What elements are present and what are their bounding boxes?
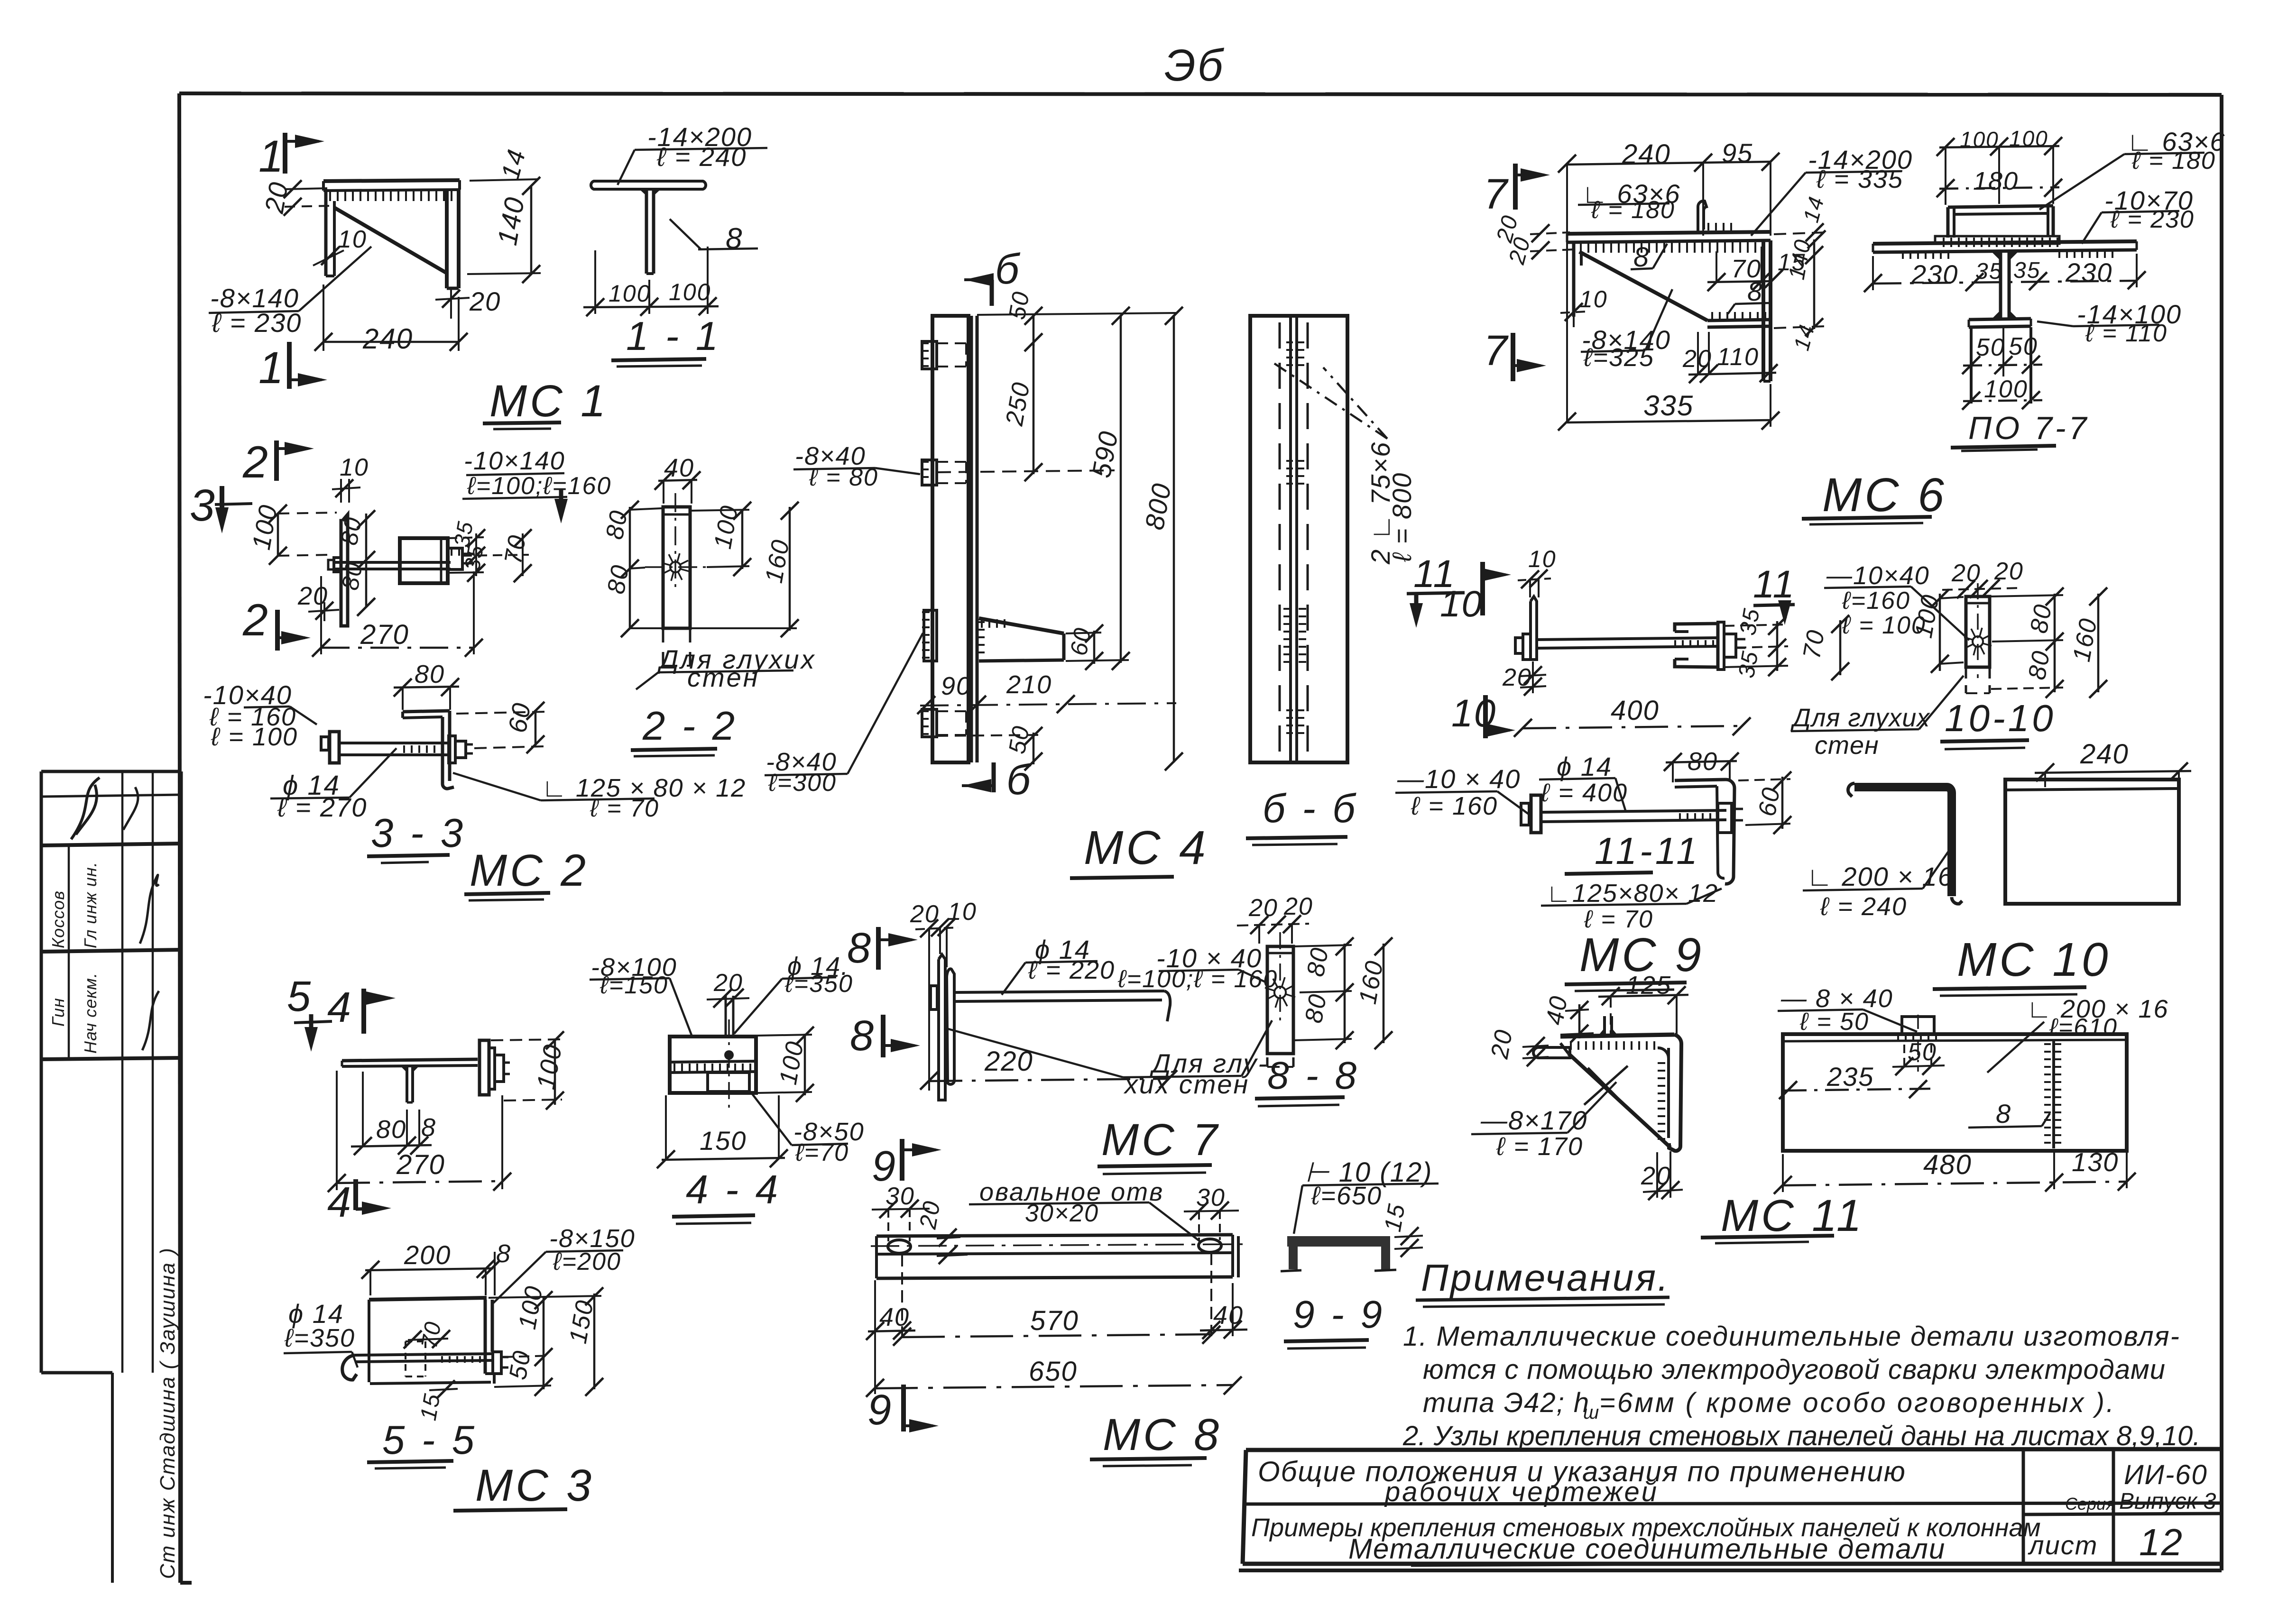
svg-text:270: 270 (360, 619, 409, 650)
label Для глухих стен 2-2 (636, 644, 816, 692)
MC6 weld under plate (1572, 242, 1763, 253)
svg-text:50: 50 (1004, 289, 1035, 321)
dim 15 5-5 (416, 1380, 458, 1422)
border frame right line (2220, 95, 2223, 1570)
dim 20 MC11 left (1486, 1027, 1549, 1066)
1-1 plate (591, 181, 706, 189)
dim 160 8-8 (1354, 937, 1393, 1049)
section marker 8 bottom (850, 1012, 920, 1060)
svg-text:ℓ=610: ℓ=610 (2049, 1014, 2118, 1041)
title 10-10 (1940, 697, 2056, 749)
label L63x6 l=180 MC6 (1578, 179, 1681, 224)
MC8 plate (871, 1235, 1245, 1278)
4-4 bolt section dot (724, 1019, 734, 1110)
svg-text:10: 10 (1440, 583, 1483, 624)
MC4 bolt 1 (922, 341, 966, 369)
label 8 MC6 right (1728, 276, 1769, 314)
svg-text:2: 2 (242, 437, 269, 487)
svg-text:4 - 4: 4 - 4 (686, 1167, 781, 1212)
11-11 bolt (1521, 795, 1743, 833)
2-2 dashed continuation (663, 628, 690, 666)
3-3 bolt shaft (339, 743, 449, 755)
svg-text:ℓ = 160: ℓ = 160 (1411, 792, 1498, 820)
title block outer box (1243, 1449, 2222, 1564)
dim 10 MC2 plate (332, 454, 369, 503)
MC6 angle end on plate (1698, 201, 1736, 233)
svg-text:8: 8 (850, 1012, 875, 1060)
dims 80 8 MC3 (351, 1072, 436, 1155)
svg-text:35: 35 (1735, 606, 1765, 637)
title ПО7-7 (1951, 410, 2089, 451)
title block text row1 line2 (1384, 1477, 1659, 1507)
MC11 block on angle (1897, 1017, 1940, 1037)
dim 60 11-11 (1738, 771, 1791, 834)
MC7 bolt rod with hook (954, 991, 1170, 1021)
label -8x40 l=300 (765, 633, 923, 797)
dim 20 MC8 left (914, 1198, 968, 1264)
5-5 edge plate (485, 1300, 494, 1384)
label -8x50 l=70 (750, 1092, 865, 1166)
dim 100 10-10 (1910, 589, 1964, 673)
dim 50 MC4 bottom (937, 723, 1042, 771)
svg-text:ϕ 14: ϕ 14 (1557, 752, 1612, 781)
svg-text:20: 20 (1641, 1162, 1671, 1190)
svg-text:Выпуск 3: Выпуск 3 (2119, 1489, 2216, 1514)
MC4 left plate column (932, 316, 968, 762)
MC1 diagonal plate edge (334, 208, 447, 273)
MC4 bolt 4 (922, 709, 966, 737)
svg-text:ℓ = 240: ℓ = 240 (1820, 892, 1907, 921)
dim 10 MC9 plate (1518, 546, 1557, 597)
svg-text:20: 20 (1951, 560, 1981, 587)
svg-text:б - б: б - б (1263, 786, 1358, 831)
2-2 centerlines (645, 493, 707, 588)
svg-text:ℓ = 180: ℓ = 180 (2131, 147, 2216, 174)
MC4 tapered gusset (979, 618, 1064, 661)
dim 100 4-4 right (758, 1027, 814, 1102)
dims 100 100 ПО7-7 (1937, 126, 2062, 205)
5-5 bolt rod and J-hook (342, 1354, 493, 1380)
svg-text:480: 480 (1923, 1149, 1972, 1180)
MC1 right vertical plate (447, 190, 459, 288)
svg-text:650: 650 (1029, 1356, 1078, 1387)
svg-text:80: 80 (376, 1115, 406, 1144)
dim 8 5-5 (482, 1239, 511, 1295)
svg-text:70: 70 (417, 1319, 446, 1350)
label 2L75x6 l=800 (1271, 361, 1417, 569)
svg-text:Примечания.: Примечания. (1421, 1257, 1670, 1299)
6-6 outer panel (1250, 316, 1347, 762)
svg-text:Эб: Эб (1164, 40, 1225, 91)
svg-text:2 - 2: 2 - 2 (642, 704, 738, 749)
ПО7-7 bottom plate (1969, 319, 2031, 327)
MC10 angle view right (2005, 780, 2179, 904)
1-1 web plate (646, 190, 654, 274)
MC11 weld seam vertical (2048, 1041, 2058, 1148)
ПО7-7 channel part (1948, 206, 2053, 238)
svg-text:60: 60 (1753, 785, 1786, 818)
label -8x140 l=230 for MC1 diagonal (209, 247, 371, 338)
section marker 10 bottom (1451, 692, 1515, 738)
svg-text:ℓ=150: ℓ=150 (600, 972, 668, 999)
MC2 bolt shaft (334, 562, 451, 569)
dim 150 5-5 (489, 1287, 603, 1396)
title 8-8 (1255, 1054, 1359, 1106)
label -14x200 l=240 (618, 122, 767, 185)
svg-text:Коссов: Коссов (48, 890, 68, 948)
title 2-2 (631, 704, 738, 756)
MC6 right vertical plate (1763, 240, 1771, 381)
title MC 1 (483, 376, 609, 429)
svg-text:ИИ-60: ИИ-60 (2124, 1459, 2208, 1490)
title MC 11 (1701, 1191, 1864, 1243)
svg-text:15: 15 (1379, 1201, 1411, 1233)
label L200x16 l=610 (1987, 995, 2169, 1073)
svg-text:3: 3 (190, 480, 216, 531)
MC2 right block (400, 538, 448, 583)
MC9 anchor plate (1531, 596, 1537, 660)
section marker 11 right (1753, 563, 1795, 625)
svg-text:ℓ=350: ℓ=350 (784, 970, 853, 998)
section marker 1 top (258, 131, 324, 182)
title MC 9 (1565, 928, 1704, 991)
svg-text:50: 50 (2009, 333, 2038, 360)
svg-text:8 - 8: 8 - 8 (1267, 1054, 1359, 1097)
svg-text:570: 570 (1030, 1305, 1079, 1336)
svg-text:270: 270 (396, 1149, 445, 1180)
notes line 2 (1423, 1354, 2166, 1385)
dim 100 MC2 left (247, 502, 337, 565)
dim 50 MC4 top (1004, 289, 1042, 351)
5-5 washer T right (493, 1352, 508, 1374)
section marker 2 bottom (242, 595, 311, 651)
svg-text:4: 4 (327, 984, 352, 1031)
label L125x80x12 l=70 (453, 773, 746, 822)
title 1-1 (611, 314, 721, 367)
label -10x70 l=230 (2082, 185, 2195, 244)
section marker 1 bottom (258, 342, 327, 393)
label ф14 l=350 for 5-5 (284, 1299, 358, 1367)
stamp table outer box (41, 771, 181, 1583)
svg-text:Для глухих: Для глухих (1790, 704, 1930, 732)
notes line 3 (1423, 1387, 2116, 1423)
6-6 inner plate lines (1291, 316, 1297, 762)
6-6 dashed angle lines (1280, 322, 1308, 756)
svg-text:50: 50 (1908, 1038, 1937, 1066)
dim 270 MC3 (328, 1071, 511, 1192)
3-3 bolt head and washer (321, 732, 339, 763)
svg-text:10-10: 10-10 (1945, 697, 2056, 739)
MC9 bolt head washer (1515, 634, 1531, 660)
title MC 4 (1070, 821, 1208, 878)
svg-text:ℓ = 800: ℓ = 800 (1387, 472, 1417, 562)
svg-text:МС 7: МС 7 (1101, 1115, 1220, 1165)
MC7 anchor plate (939, 954, 954, 1100)
MC6 left vertical plate (1574, 242, 1581, 317)
dim 70 MC2 right (499, 529, 532, 582)
svg-text:80: 80 (1300, 991, 1332, 1025)
dim 70 MC9 (1798, 615, 1849, 680)
dim 60 MC4 gusset (1065, 624, 1103, 670)
svg-text:11-11: 11-11 (1595, 830, 1700, 872)
4-4 block (670, 1037, 756, 1093)
svg-text:1 - 1: 1 - 1 (626, 314, 721, 359)
svg-text:100: 100 (1984, 376, 2028, 403)
section marker 5 top (287, 973, 332, 1052)
svg-text:240: 240 (2080, 739, 2129, 770)
notes line 1 (1403, 1321, 2180, 1352)
dim 180 ПО7-7 (1937, 167, 2062, 197)
dim 60 3-3 (456, 700, 545, 753)
dim 80 80 MC2 (336, 510, 375, 616)
svg-text:ℓ=100;ℓ=160: ℓ=100;ℓ=160 (467, 472, 611, 500)
label овальное отв 30x20 (969, 1178, 1200, 1241)
svg-text:210: 210 (1006, 670, 1052, 699)
ПО7-7 web (1992, 252, 2018, 319)
svg-text:МС 1: МС 1 (489, 376, 609, 426)
label -10x40 l=160 l=100 for 3-3 (203, 680, 317, 751)
label ф14 l=220 (1002, 935, 1115, 995)
svg-text:20: 20 (914, 1198, 946, 1231)
svg-text:11: 11 (1753, 563, 1795, 606)
dim 15 9-9 (1379, 1201, 1423, 1257)
dims 90 210 MC4 (917, 670, 1176, 714)
stamp text Гин (48, 998, 68, 1027)
MC3 washer plates right (480, 1040, 495, 1095)
section marker 9 top (872, 1139, 941, 1190)
dim 80 11-11 (1664, 747, 1739, 782)
svg-text:10: 10 (1579, 286, 1608, 312)
title block text ИИ-60 (2124, 1459, 2208, 1490)
1-1 dims 100 100 (583, 247, 719, 316)
dim 80 3-3 (394, 660, 459, 710)
notes heading (1416, 1257, 1670, 1307)
svg-text:40: 40 (664, 454, 694, 482)
svg-text:ℓ = 240: ℓ = 240 (656, 142, 747, 172)
dim 70 5-5 (404, 1319, 450, 1350)
dims 80 80 8-8 (1293, 937, 1354, 1049)
svg-text:70: 70 (499, 532, 532, 566)
svg-text:30: 30 (1196, 1184, 1226, 1211)
section marker 7 top (1484, 164, 1550, 218)
dim 335 MC6 (1558, 384, 1780, 431)
svg-text:ℓ=160: ℓ=160 (1842, 587, 1910, 615)
MC1 top plate (323, 180, 460, 191)
svg-text:5: 5 (287, 973, 312, 1020)
dim 30 MC8 left (872, 1183, 930, 1241)
dim 20 MC1 bottom right (435, 286, 501, 319)
svg-text:35: 35 (1975, 259, 2002, 284)
svg-text:типа Э42; h: типа Э42; h (1423, 1387, 1590, 1418)
label L125x80x12 l=70 11-11 (1541, 879, 1722, 933)
svg-text:Гл инж ин.: Гл инж ин. (81, 862, 100, 948)
dim 20 4-4 (707, 969, 749, 1008)
svg-text:3 - 3: 3 - 3 (371, 811, 466, 856)
dim 100 ПО7-7 bottom (1962, 376, 2042, 410)
svg-text:240: 240 (362, 323, 413, 355)
svg-text:—10 × 40: —10 × 40 (1397, 764, 1521, 794)
label -8x140 l=325 MC6 (1581, 289, 1672, 372)
svg-text:235: 235 (1826, 1062, 1874, 1092)
MC11 small plate left (1533, 1047, 1570, 1058)
dim 15 MC6 (1765, 249, 1806, 288)
label C10(12) l=650 (1294, 1157, 1439, 1234)
10-10 hole (1964, 583, 1992, 678)
svg-text:80: 80 (1302, 945, 1334, 979)
MC2 left washer and head (328, 558, 341, 572)
svg-text:110: 110 (1717, 343, 1759, 371)
dim 220 MC7 (920, 1046, 1177, 1090)
label -10x40 l=160 l=100 10-10 (1824, 561, 1969, 640)
title 11-11 (1565, 830, 1700, 874)
svg-text:20: 20 (1248, 894, 1278, 922)
section marker 8 top (847, 925, 918, 972)
svg-text:ℓ = 335: ℓ = 335 (1816, 165, 1903, 193)
dim 14 MC1 plate thickness (470, 146, 540, 195)
svg-text:МС 4: МС 4 (1084, 821, 1208, 874)
MC2 nut and thread end (448, 548, 474, 569)
border frame top line (179, 93, 2222, 95)
svg-text:80: 80 (336, 514, 367, 547)
dims 20 10 MC7 (910, 898, 977, 1091)
10-10 plate (1966, 596, 1990, 693)
title block text Выпуск 3 (2119, 1489, 2216, 1514)
svg-text:∟125×80× 12: ∟125×80× 12 (1546, 879, 1718, 908)
title MC 6 (1802, 468, 1947, 524)
dims 35 35 MC2 right (448, 519, 529, 582)
section marker 9 bottom (867, 1385, 939, 1434)
section marker б top (964, 246, 1021, 306)
label -8x40 l=80 (793, 442, 920, 491)
section marker 2 top (242, 437, 314, 487)
MC9 channel block right (1675, 624, 1718, 667)
svg-text:ℓ=325: ℓ=325 (1583, 343, 1654, 372)
dims 100 50 5-5 (494, 1284, 553, 1396)
dim 160 10-10 (2068, 587, 2107, 698)
section marker 7 bottom (1484, 327, 1546, 381)
svg-text:1: 1 (258, 343, 285, 393)
svg-text:70: 70 (1798, 627, 1830, 661)
border frame left line (179, 93, 192, 1583)
MC11 diagonal (1560, 1043, 1670, 1147)
dim 20 MC2 below plate (297, 582, 339, 621)
label ф14 l=350 for 4-4 (734, 952, 853, 1034)
label 8 weld MC11 (1968, 1099, 2050, 1129)
label -10x40 l=100 l=160 MC7 (1117, 943, 1278, 993)
svg-text:230: 230 (1911, 259, 1958, 289)
marker 3 right arrow (554, 488, 568, 523)
dims 20 110 MC6 bottom (1682, 332, 1778, 383)
label ф14 l=400 (1539, 752, 1628, 812)
dim 20 MC11 bottom (1641, 1151, 1683, 1200)
label 8 MC6 mid (1631, 242, 1667, 273)
svg-text:10: 10 (340, 454, 369, 481)
label -14x100 l=110 (2037, 299, 2182, 347)
svg-text:рабочих чертежей: рабочих чертежей (1384, 1477, 1659, 1507)
svg-text:335: 335 (1643, 390, 1694, 422)
svg-text:35: 35 (1734, 649, 1763, 680)
svg-text:1. Металлические соединительн: 1. Металлические соединительные детали и… (1403, 1321, 2180, 1352)
svg-text:7: 7 (1484, 327, 1509, 375)
svg-text:50: 50 (504, 1348, 536, 1382)
MC11 bracket (1560, 1035, 1681, 1151)
dims 240 95 MC6 top (1558, 138, 1780, 422)
dims 100 160 2-2 right (690, 502, 799, 637)
dim 20 MC9 (1502, 661, 1546, 696)
dim 20 left of MC1 (259, 179, 332, 216)
svg-text:9 - 9: 9 - 9 (1293, 1293, 1385, 1336)
stamp text Коссов (48, 890, 68, 948)
MC3 top plate (342, 1059, 478, 1066)
svg-text:400: 400 (1611, 695, 1660, 726)
dim 70 MC6 (1707, 247, 1771, 291)
MC1 weld under top plate (329, 191, 454, 201)
title MC 2 (464, 845, 589, 900)
svg-text:20: 20 (1486, 1027, 1518, 1061)
sheet number mark (1164, 40, 1225, 91)
stamp signature squiggles (140, 875, 159, 1050)
5-5 dashed head box (406, 1341, 425, 1376)
svg-text:Серия: Серия (2065, 1494, 2115, 1514)
label 8 web thickness (670, 219, 758, 255)
svg-text:80: 80 (2025, 602, 2057, 635)
title MC 10 (1933, 933, 2111, 996)
label L63x6 l=180 ПО7-7 (2039, 127, 2226, 210)
svg-text:40: 40 (1213, 1301, 1244, 1330)
label -8x150 l=200 (491, 1224, 636, 1305)
label -8x100 l=150 (590, 953, 692, 1037)
dims 20 20 10-10 (1942, 558, 2024, 598)
svg-text:2. Узлы крепления стеновых: 2. Узлы крепления стеновых панелей даны … (1402, 1421, 2200, 1451)
title block text лист (2028, 1530, 2098, 1560)
MC4 bolt 3 with weld block (924, 610, 937, 661)
label L200x16 l=240 (1803, 849, 1954, 921)
title 6-6 (1246, 786, 1358, 845)
svg-text:Гин: Гин (48, 998, 68, 1027)
svg-text:8: 8 (726, 222, 743, 255)
title block row divider (1246, 1503, 2222, 1504)
label Для глухих стен MC7 (945, 1020, 1272, 1099)
4-4 bolt end above (726, 996, 733, 1037)
MC11 cross mark (1584, 1066, 1628, 1105)
svg-text:80: 80 (415, 660, 445, 688)
MC3 bolt stub below plate (401, 1066, 419, 1102)
svg-text:стен: стен (687, 662, 760, 692)
dim 400 MC9 (1514, 695, 1751, 737)
MC8 oval holes (888, 1239, 1221, 1253)
svg-text:8: 8 (496, 1239, 511, 1268)
svg-text:8: 8 (847, 925, 872, 972)
MC9 bolt rod (1537, 638, 1719, 648)
svg-text:ℓ = 170: ℓ = 170 (1496, 1132, 1583, 1161)
MC9 washer nut right (1718, 622, 1745, 670)
svg-text:100: 100 (669, 279, 711, 305)
svg-text:ются с помощью электродугов: ются с помощью электродуговой сварки эле… (1423, 1354, 2166, 1385)
svg-text:ПО 7-7: ПО 7-7 (1968, 410, 2089, 446)
svg-text:200: 200 (404, 1240, 451, 1270)
dim 800 MC4 (1139, 307, 1183, 771)
MC7 bolt head (931, 986, 937, 1009)
svg-text:240: 240 (1622, 139, 1671, 170)
MC6 diagonal plate (1579, 252, 1707, 321)
section marker 11 left (1407, 552, 1465, 628)
6-6 weld clusters (1287, 341, 1302, 737)
svg-text:Нач секм.: Нач секм. (81, 973, 100, 1054)
section marker 4 top (327, 984, 396, 1034)
svg-text:80: 80 (2023, 648, 2056, 682)
dim 240 MC10 (2035, 739, 2191, 787)
svg-text:ℓ = 180: ℓ = 180 (1591, 196, 1675, 224)
